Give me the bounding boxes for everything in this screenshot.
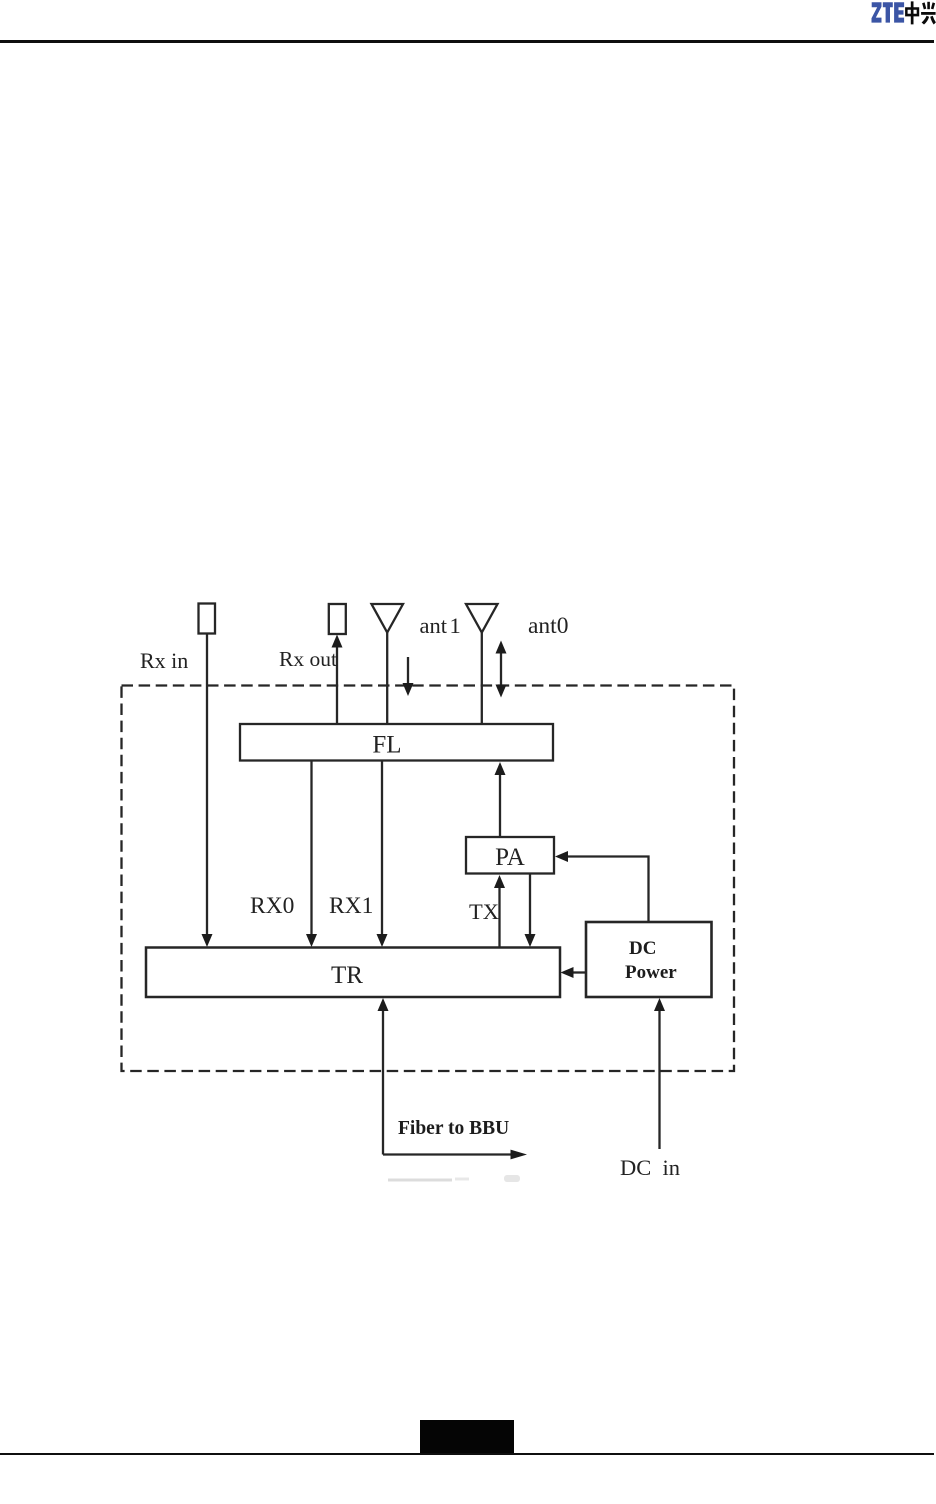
wire FL to Rx out <box>332 635 343 725</box>
wire TR to PA (TX) <box>494 875 505 948</box>
antenna ant0 <box>466 604 498 724</box>
logo text ZTE <box>872 2 905 22</box>
svg-text:DC in: DC in <box>620 1155 680 1180</box>
wire RX1 <box>377 761 388 948</box>
FL box <box>240 724 553 761</box>
wire fiber to BBU <box>378 998 528 1159</box>
svg-text:RX0: RX0 <box>250 893 294 919</box>
short down arrow at enclosure top <box>403 657 414 696</box>
label ant1 <box>420 613 461 638</box>
svg-text:Rx in: Rx in <box>140 648 188 673</box>
svg-text:ant0: ant0 <box>528 613 568 639</box>
antenna ant1 <box>372 604 404 724</box>
wire PA to TR <box>525 874 536 948</box>
svg-text:ant: ant <box>420 613 448 638</box>
svg-text:Rx out: Rx out <box>279 647 337 671</box>
wire DC in <box>654 998 665 1149</box>
footer rule <box>0 1453 934 1456</box>
double arrow on ant0 feed <box>496 641 507 698</box>
wire RX0 <box>306 761 317 948</box>
svg-text:Fiber to BBU: Fiber to BBU <box>398 1118 509 1139</box>
ghost artifact line <box>388 1175 520 1182</box>
svg-text:PA: PA <box>495 844 525 871</box>
svg-text:TX: TX <box>469 899 499 924</box>
port connector (Rx out) <box>329 604 346 634</box>
wire PA to FL <box>495 762 506 837</box>
svg-text:1: 1 <box>450 613 461 638</box>
ZTE logo <box>871 1 936 25</box>
wire Rx in to TR <box>202 634 213 948</box>
header rule <box>0 40 934 43</box>
port connector (Rx in) <box>199 604 216 634</box>
TR box <box>146 948 560 998</box>
dashed enclosure <box>122 686 735 1072</box>
DC Power box <box>586 922 712 997</box>
PA box <box>466 837 554 874</box>
footer redaction block <box>420 1420 514 1454</box>
svg-text:TR: TR <box>331 962 363 989</box>
label DC Power <box>625 938 677 983</box>
svg-text:RX1: RX1 <box>329 893 373 919</box>
wire DC Power to TR <box>561 967 587 978</box>
logo hanzi <box>905 1 936 24</box>
wire DC Power to PA <box>555 851 649 922</box>
svg-text:FL: FL <box>372 732 401 759</box>
svg-text:DC: DC <box>629 938 656 959</box>
svg-text:Power: Power <box>625 962 677 983</box>
